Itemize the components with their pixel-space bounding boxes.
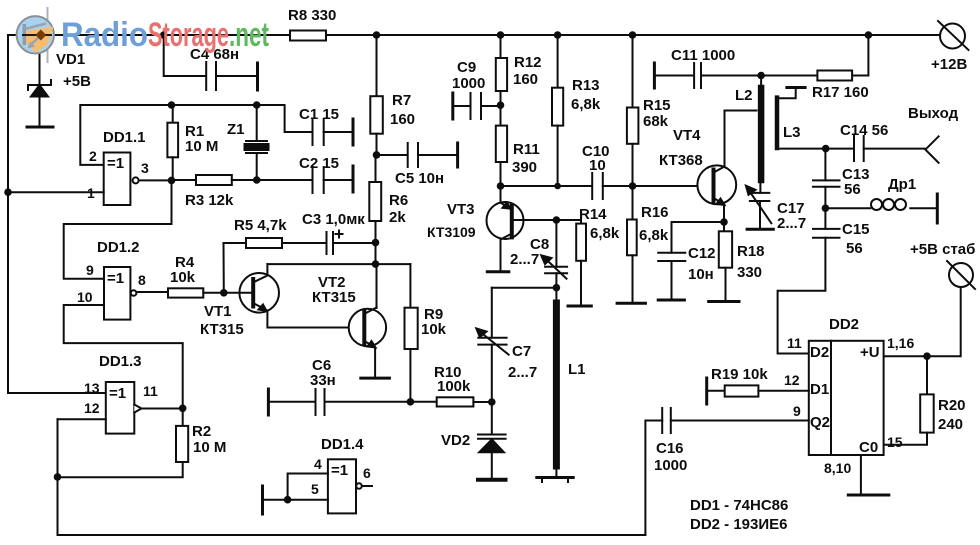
resistor R6 bbox=[369, 155, 381, 243]
svg-text:10k: 10k bbox=[170, 269, 196, 286]
capacitor C15 bbox=[778, 208, 840, 353]
trimmer capacitor C8 bbox=[541, 220, 567, 288]
svg-text:C2 15: C2 15 bbox=[299, 155, 339, 172]
svg-text:R3 12k: R3 12k bbox=[185, 192, 234, 209]
capacitor C12 bbox=[658, 222, 724, 300]
svg-text:Radio: Radio bbox=[61, 16, 148, 54]
svg-text:R7: R7 bbox=[392, 92, 411, 109]
svg-text:DD1.4: DD1.4 bbox=[321, 436, 364, 453]
inductor L1 bbox=[537, 288, 573, 482]
svg-text:R17 160: R17 160 bbox=[812, 84, 869, 101]
counter DD2 bbox=[809, 341, 889, 495]
svg-text:R12: R12 bbox=[514, 54, 542, 71]
svg-text:КТ315: КТ315 bbox=[200, 321, 244, 338]
capacitor C16 bbox=[645, 408, 808, 535]
varicap VD2 bbox=[478, 402, 506, 480]
svg-text:VT1: VT1 bbox=[204, 303, 232, 320]
wire C7 to L1 top bbox=[492, 287, 557, 289]
svg-text:DD1.1: DD1.1 bbox=[103, 129, 146, 146]
svg-text:6: 6 bbox=[363, 465, 371, 481]
svg-text:DD1 - 74HC86: DD1 - 74HC86 bbox=[690, 497, 788, 514]
svg-text:10н: 10н bbox=[688, 266, 714, 283]
capacitor C10 bbox=[592, 173, 632, 199]
inductor L3 bbox=[777, 88, 826, 149]
capacitor C4 bbox=[164, 35, 258, 90]
wire VT1/VT2 collector node bbox=[375, 243, 377, 264]
wire emitter node to C10 bbox=[501, 185, 592, 187]
transistor VT4 bbox=[697, 111, 756, 223]
svg-text:160: 160 bbox=[390, 111, 415, 128]
svg-text:+5В: +5В bbox=[63, 73, 91, 90]
svg-text:C1 15: C1 15 bbox=[299, 106, 339, 123]
zener diode VD1 bbox=[27, 35, 53, 127]
svg-text:R19 10k: R19 10k bbox=[711, 366, 768, 383]
logic gate DD1.4 bbox=[263, 459, 373, 514]
resistor R20 bbox=[884, 356, 934, 445]
resistor R15 bbox=[627, 35, 639, 186]
capacitor C6 bbox=[268, 389, 410, 415]
resistor R17 bbox=[761, 35, 868, 81]
svg-text:C16: C16 bbox=[656, 440, 684, 457]
svg-text:L1: L1 bbox=[568, 361, 586, 378]
resistor R19 bbox=[707, 378, 809, 404]
terminal +5V stab bbox=[927, 261, 975, 356]
svg-text:R18: R18 bbox=[737, 243, 765, 260]
logic gate DD1.3 bbox=[58, 382, 183, 477]
capacitor C1 bbox=[257, 105, 353, 145]
svg-text:12: 12 bbox=[84, 400, 100, 416]
svg-text:11: 11 bbox=[787, 335, 802, 351]
crystal Z1 bbox=[245, 105, 269, 180]
svg-text:D1: D1 bbox=[810, 381, 829, 398]
svg-text:R2: R2 bbox=[192, 423, 211, 440]
svg-text:9: 9 bbox=[86, 262, 94, 278]
svg-text:9: 9 bbox=[793, 403, 801, 419]
svg-text:33н: 33н bbox=[310, 372, 336, 389]
resistor R13 bbox=[552, 35, 563, 186]
svg-text:=1: =1 bbox=[331, 462, 348, 479]
svg-text:Storage: Storage bbox=[148, 16, 229, 54]
resistor R9 bbox=[405, 264, 418, 402]
svg-text:2...7: 2...7 bbox=[510, 251, 539, 268]
resistor R18 bbox=[709, 222, 739, 302]
capacitor C9 bbox=[453, 93, 501, 119]
wire +U pin bbox=[884, 355, 927, 357]
svg-text:КТ368: КТ368 bbox=[659, 152, 703, 169]
logic gate DD1.1 bbox=[8, 153, 172, 206]
wire DD1.1 top bus bbox=[80, 105, 256, 165]
svg-text:160: 160 bbox=[513, 71, 538, 88]
svg-text:1000: 1000 bbox=[452, 75, 485, 92]
svg-text:R15: R15 bbox=[643, 97, 671, 114]
resistor R1 bbox=[167, 105, 178, 180]
svg-text:D2: D2 bbox=[810, 344, 829, 361]
svg-text:12: 12 bbox=[784, 372, 800, 388]
svg-text:C0: C0 bbox=[859, 439, 878, 456]
svg-text:C15: C15 bbox=[842, 221, 870, 238]
resistor R7 bbox=[370, 35, 383, 155]
resistor R8 bbox=[290, 31, 326, 41]
terminal +12V bbox=[938, 21, 969, 50]
transistor VT3 bbox=[487, 186, 557, 272]
capacitor C2 bbox=[257, 166, 353, 193]
transistor VT2 bbox=[349, 308, 390, 379]
capacitor C14 bbox=[826, 136, 926, 161]
svg-text:R14: R14 bbox=[579, 206, 607, 223]
wire top +12V rail bbox=[8, 34, 940, 36]
svg-text:VT4: VT4 bbox=[673, 127, 701, 144]
svg-text:C12: C12 bbox=[688, 245, 716, 262]
svg-text:1: 1 bbox=[87, 185, 95, 201]
svg-text:1000: 1000 bbox=[654, 457, 687, 474]
svg-text:330: 330 bbox=[737, 264, 762, 281]
svg-text:6,8k: 6,8k bbox=[571, 96, 601, 113]
wire DD1.2 pin10 route bbox=[64, 305, 183, 408]
svg-text:VD2: VD2 bbox=[441, 432, 470, 449]
resistor R12 bbox=[496, 35, 507, 105]
svg-text:=1: =1 bbox=[107, 270, 124, 287]
svg-text:2k: 2k bbox=[389, 209, 406, 226]
svg-text:L3: L3 bbox=[783, 124, 801, 141]
resistor R14 bbox=[556, 220, 591, 306]
svg-text:=1: =1 bbox=[107, 155, 124, 172]
svg-text:390: 390 bbox=[512, 159, 537, 176]
svg-text:10 М: 10 М bbox=[185, 138, 218, 155]
svg-text:L2: L2 bbox=[735, 87, 753, 104]
svg-text:15: 15 bbox=[887, 434, 903, 450]
svg-text:C5 10н: C5 10н bbox=[395, 170, 444, 187]
svg-text:C7: C7 bbox=[512, 343, 531, 360]
svg-text:DD2 - 193ИЕ6: DD2 - 193ИЕ6 bbox=[690, 516, 788, 533]
choke Dr1 bbox=[825, 194, 937, 223]
svg-text:3: 3 bbox=[141, 160, 149, 176]
svg-text:6,8k: 6,8k bbox=[639, 227, 669, 244]
svg-text:Q2: Q2 bbox=[810, 414, 830, 431]
capacitor C3 bbox=[327, 231, 376, 255]
resistor R5 bbox=[224, 238, 326, 293]
wire left rail to DD1.3 pin13 bbox=[8, 35, 106, 393]
output arrow bbox=[925, 136, 938, 162]
svg-text:11: 11 bbox=[143, 383, 158, 399]
svg-text:R8 330: R8 330 bbox=[288, 7, 336, 24]
svg-text:2...7: 2...7 bbox=[508, 364, 537, 381]
svg-text:240: 240 bbox=[938, 416, 963, 433]
svg-text:1,16: 1,16 bbox=[887, 335, 914, 351]
transistor VT1 bbox=[224, 273, 362, 328]
svg-text:R11: R11 bbox=[513, 141, 540, 158]
svg-text:C11 1000: C11 1000 bbox=[671, 47, 735, 64]
resistor R11 bbox=[496, 105, 507, 186]
svg-text:C9: C9 bbox=[457, 59, 476, 76]
capacitor C5 bbox=[377, 143, 458, 167]
svg-text:R6: R6 bbox=[389, 192, 408, 209]
svg-text:VT3: VT3 bbox=[447, 201, 475, 218]
svg-text:2...7: 2...7 bbox=[777, 215, 806, 232]
svg-text:+U: +U bbox=[860, 344, 880, 361]
resistor R2 bbox=[58, 408, 189, 477]
svg-text:5: 5 bbox=[311, 481, 319, 497]
svg-text:КТ3109: КТ3109 bbox=[427, 224, 476, 240]
svg-text:.net: .net bbox=[229, 16, 269, 54]
svg-text:DD1.2: DD1.2 bbox=[97, 239, 140, 256]
wire bottom feedback bbox=[58, 534, 646, 536]
svg-text:DD2: DD2 bbox=[829, 316, 859, 333]
resistor R10 bbox=[410, 397, 491, 406]
svg-text:10: 10 bbox=[589, 157, 606, 174]
svg-text:=1: =1 bbox=[109, 385, 126, 402]
wire VT4 base bbox=[633, 185, 712, 187]
wire junction to bottom bbox=[57, 477, 59, 535]
svg-text:68k: 68k bbox=[643, 113, 669, 130]
svg-text:4: 4 bbox=[314, 456, 322, 472]
svg-text:100k: 100k bbox=[437, 378, 471, 395]
capacitor C11 bbox=[654, 63, 761, 88]
svg-text:КТ315: КТ315 bbox=[312, 289, 356, 306]
svg-text:2: 2 bbox=[89, 148, 97, 164]
resistor R4 bbox=[168, 288, 224, 297]
svg-text:Z1: Z1 bbox=[227, 121, 245, 138]
resistor R16 bbox=[617, 186, 645, 303]
svg-text:8,10: 8,10 bbox=[824, 460, 851, 476]
svg-text:10k: 10k bbox=[421, 321, 447, 338]
logo RadioStorage watermark bbox=[17, 7, 269, 63]
svg-text:56: 56 bbox=[846, 240, 863, 257]
trimmer capacitor C7 bbox=[476, 288, 508, 402]
svg-text:10: 10 bbox=[77, 289, 93, 305]
svg-text:8: 8 bbox=[138, 272, 146, 288]
trimmer capacitor C17 bbox=[746, 186, 773, 230]
wire DD1.2 pin9 route bbox=[64, 180, 172, 278]
inductor L2 bbox=[759, 76, 762, 193]
svg-text:6,8k: 6,8k bbox=[590, 225, 620, 242]
svg-text:+12В: +12В bbox=[931, 56, 967, 73]
capacitor C13 bbox=[813, 149, 840, 209]
svg-text:Выход: Выход bbox=[908, 105, 959, 122]
svg-text:R5 4,7k: R5 4,7k bbox=[234, 217, 287, 234]
svg-text:C14 56: C14 56 bbox=[840, 122, 888, 139]
svg-text:10 М: 10 М bbox=[193, 439, 226, 456]
svg-text:Др1: Др1 bbox=[888, 176, 916, 193]
svg-text:R16: R16 bbox=[641, 204, 669, 221]
svg-text:DD1.3: DD1.3 bbox=[99, 353, 142, 370]
resistor R3 bbox=[172, 175, 257, 185]
svg-text:13: 13 bbox=[84, 380, 100, 396]
logic gate DD1.2 bbox=[104, 267, 168, 320]
svg-text:R13: R13 bbox=[572, 77, 600, 94]
svg-text:56: 56 bbox=[844, 181, 861, 198]
svg-text:R20: R20 bbox=[938, 397, 966, 414]
svg-text:+5В стаб: +5В стаб bbox=[910, 241, 975, 258]
svg-text:C3 1,0мк: C3 1,0мк bbox=[302, 211, 365, 228]
